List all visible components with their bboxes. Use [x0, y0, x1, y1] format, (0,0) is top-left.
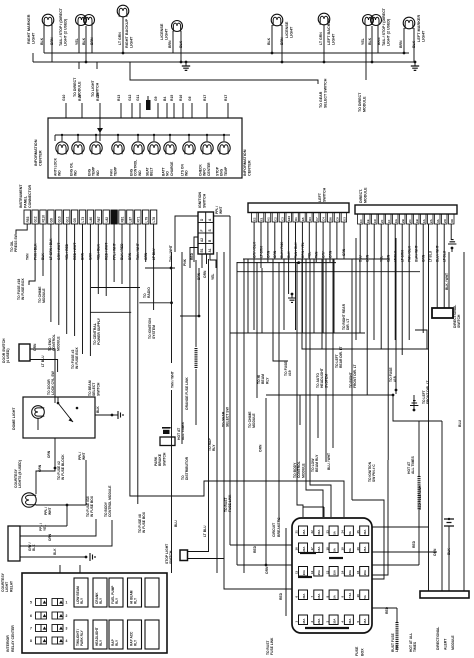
svg-text:R87: R87 [97, 216, 101, 222]
wire to chime module right [256, 262, 258, 398]
svg-text:SELECT SW: SELECT SW [226, 406, 230, 427]
wire YEL ignition switch [210, 254, 216, 268]
relay FUEL PUMP RLY [109, 578, 123, 607]
svg-text:RIGHT MARKER: RIGHT MARKER [27, 14, 31, 44]
svg-text:15: 15 [356, 570, 360, 574]
pin R19 information center [81, 103, 83, 118]
fuse 25 30A [360, 526, 369, 536]
svg-text:20A: 20A [317, 618, 321, 624]
terminal C2 left switch [272, 213, 277, 223]
direct module connector header [355, 205, 457, 214]
terminal E2 left switch [252, 213, 257, 223]
terminal L79 instrument panel connector [143, 210, 149, 224]
junction and ground right mid [393, 395, 442, 421]
wire RED ignition switch [194, 237, 198, 262]
wire to fuse 18 right [395, 238, 397, 355]
wire stop light to fuse box [188, 559, 293, 590]
fuse 21 15A [299, 526, 308, 536]
wire ORN door switch [30, 349, 55, 397]
wire tail bus upper [44, 52, 409, 54]
svg-text:22: 22 [310, 530, 314, 534]
svg-text:G12: G12 [34, 216, 38, 222]
courtesy lamp [22, 493, 36, 507]
svg-text:GRN: GRN [342, 248, 346, 256]
svg-text:15A: 15A [302, 618, 306, 624]
indicator lamp ENG CONTROL IND [137, 135, 139, 141]
svg-text:TAIL / STOP / (DIRECT: TAIL / STOP / (DIRECT [382, 7, 386, 46]
svg-text:ORANGE FUSE LINK: ORANGE FUSE LINK [185, 377, 189, 410]
svg-text:G9: G9 [154, 96, 158, 101]
svg-text:30A: 30A [363, 529, 367, 535]
information center box [48, 118, 242, 178]
svg-text:IND: IND [74, 170, 78, 176]
fuse 1 15A [299, 615, 308, 625]
svg-text:ORN: ORN [259, 444, 263, 452]
pin B4 information center [166, 103, 168, 118]
svg-text:BRN: BRN [377, 37, 381, 45]
svg-text:PRESS SW: PRESS SW [14, 233, 18, 252]
svg-text:CONNECTOR: CONNECTOR [28, 185, 32, 208]
svg-text:SWITCH: SWITCH [322, 187, 326, 202]
lamp left marker light [403, 17, 415, 29]
svg-text:BLU: BLU [174, 520, 178, 527]
svg-text:IN FUSE BLOCK: IN FUSE BLOCK [61, 454, 65, 480]
svg-text:BLK: BLK [368, 37, 372, 45]
svg-text:DIRECT.: DIRECT. [359, 189, 363, 203]
svg-text:MODULE: MODULE [77, 81, 81, 97]
svg-text:7.5A: 7.5A [348, 592, 352, 599]
wire to beam select switch [82, 224, 84, 354]
svg-text:E2: E2 [253, 217, 257, 221]
svg-text:21: 21 [295, 530, 299, 534]
fuse 23 5A [329, 526, 338, 536]
terminal D6 left switch [327, 213, 332, 223]
relay HI BEAM RLY [128, 578, 142, 607]
svg-text:20A: 20A [363, 569, 367, 575]
wire to hi beam rly [273, 259, 288, 361]
svg-text:10A: 10A [302, 569, 306, 575]
svg-text:10A: 10A [348, 569, 352, 575]
svg-text:CENTER: CENTER [39, 150, 43, 166]
svg-text:TAN / WHT: TAN / WHT [169, 245, 173, 262]
dome light lamp [32, 406, 45, 419]
stop light switch box [180, 550, 188, 561]
svg-text:L73: L73 [81, 217, 85, 223]
wire vertical pair right of fuse box [352, 500, 384, 579]
lamp right marker light [42, 14, 54, 26]
svg-text:IND: IND [96, 170, 100, 176]
svg-text:REAR DIR. LT: REAR DIR. LT [339, 346, 343, 368]
fuse 10 5A [360, 590, 369, 600]
svg-text:PANEL: PANEL [23, 195, 27, 208]
svg-text:S: S [208, 229, 212, 231]
wire tan/wht vertical [171, 252, 173, 363]
svg-text:IN FUSE BOX: IN FUSE BOX [75, 347, 79, 369]
directional switch box [432, 308, 453, 318]
svg-text:IGNITION: IGNITION [198, 192, 202, 208]
svg-text:L79: L79 [144, 217, 148, 223]
terminal G12 instrument panel connector [32, 210, 38, 224]
svg-text:(4 USED): (4 USED) [6, 348, 10, 363]
indicator lamp ENG TEMP IND [95, 135, 97, 141]
svg-text:IND: IND [58, 170, 62, 176]
svg-text:MODULE: MODULE [301, 463, 305, 478]
svg-text:16: 16 [295, 547, 299, 551]
svg-text:LICENSE: LICENSE [285, 21, 289, 38]
wire right rear corner bend [415, 330, 427, 349]
svg-text:10A: 10A [333, 618, 337, 624]
terminal C9 left switch [334, 213, 339, 223]
pin G10 information center [65, 103, 67, 118]
svg-text:C2: C2 [273, 217, 277, 221]
wire horizontal link y316 [180, 315, 199, 317]
wire horizontal link y268 [145, 267, 175, 269]
red fuse link right [418, 421, 420, 445]
svg-text:IN FUSE BOX: IN FUSE BOX [21, 278, 25, 300]
wire PPL/WHT ignition switch [214, 215, 231, 217]
svg-text:TO LIGHT: TO LIGHT [91, 79, 95, 97]
svg-text:R16: R16 [179, 95, 183, 101]
fuse 11 10A [299, 567, 308, 577]
terminal L82 instrument panel connector [103, 210, 109, 224]
svg-text:RLY: RLY [134, 639, 138, 646]
svg-text:F: F [200, 230, 204, 232]
svg-text:BLK: BLK [53, 548, 57, 555]
svg-text:RLY: RLY [212, 444, 216, 451]
wire to right front dir lt [355, 238, 357, 340]
connector blob node [146, 100, 151, 110]
svg-text:C7: C7 [315, 217, 319, 221]
svg-text:ORN: ORN [203, 270, 207, 278]
wire ORN dome to courtesy [54, 438, 56, 468]
wire to auto headlight system [302, 259, 428, 349]
terminal L87 instrument panel connector [127, 210, 133, 224]
svg-text:A1: A1 [208, 248, 212, 252]
svg-text:2: 2 [66, 614, 68, 618]
fuse 2 20A [314, 615, 323, 625]
svg-text:SWITCH: SWITCH [169, 550, 173, 564]
terminal 1B direct module [414, 214, 420, 224]
fuse 19 5A [344, 543, 353, 553]
wire to eng control module [50, 224, 52, 322]
svg-text:1F: 1F [387, 219, 391, 223]
dome light box [23, 397, 95, 438]
svg-text:RED: RED [190, 252, 194, 260]
pin R16 information center [182, 103, 184, 118]
svg-text:RLY: RLY [134, 597, 138, 604]
svg-text:C9: C9 [336, 217, 340, 221]
terminal E1 left switch [258, 213, 263, 223]
wire ORN ignition switch [206, 254, 208, 264]
wire BLK left marker [413, 28, 415, 62]
terminal 1A direct module [421, 214, 427, 224]
terminal 2C direct module [407, 214, 413, 224]
svg-text:BRN: BRN [399, 40, 403, 48]
vertical feed to relay center x244 [243, 259, 245, 573]
relay spare top [145, 578, 159, 607]
fuse box outline [292, 518, 372, 633]
svg-text:4: 4 [66, 639, 68, 643]
svg-text:RELAY CENTER: RELAY CENTER [11, 625, 15, 652]
terminal 1C direct module [358, 214, 364, 224]
svg-text:BRN: BRN [90, 37, 94, 45]
relay LOW BEAM RLY [74, 578, 88, 607]
svg-text:TAN: TAN [25, 253, 29, 260]
svg-text:15A: 15A [333, 569, 337, 575]
bus y259 left switch to direct module [243, 258, 390, 260]
wire YEL tail/stop left [365, 25, 367, 80]
svg-text:D1: D1 [294, 217, 298, 221]
wire BLK license [180, 31, 182, 62]
svg-text:G10: G10 [57, 216, 61, 222]
ground dome light [111, 414, 114, 417]
svg-text:LT BLU: LT BLU [41, 355, 45, 367]
wire PPL/WHT courtesy [36, 504, 86, 506]
fuse bus bar row16 [300, 552, 316, 554]
svg-text:14: 14 [341, 570, 345, 574]
svg-text:CIRCUIT: CIRCUIT [272, 522, 276, 537]
svg-text:15A: 15A [317, 546, 321, 552]
wire BLK tail/stop right [85, 26, 87, 62]
svg-text:G5: G5 [73, 218, 77, 222]
wire courtesy to relay PPL/YEL [66, 505, 68, 526]
svg-text:WHT: WHT [219, 206, 223, 214]
svg-text:BLK: BLK [267, 37, 271, 45]
svg-text:15A: 15A [317, 593, 321, 599]
svg-text:G10: G10 [62, 94, 66, 101]
wire TAN/WHT ignition switch [175, 216, 198, 252]
terminal 3A direct module [435, 214, 441, 224]
relay HEADLIGHT RLY [93, 620, 107, 649]
svg-text:R71: R71 [136, 216, 140, 222]
svg-text:YEL: YEL [75, 37, 79, 45]
svg-text:BEAM RLY: BEAM RLY [315, 454, 319, 472]
fuse bus bar row16 right [329, 557, 343, 559]
svg-text:POWER SUPPLY: POWER SUPPLY [97, 317, 101, 345]
svg-text:24: 24 [341, 530, 345, 534]
svg-text:RED: RED [279, 592, 283, 600]
svg-text:L87: L87 [129, 217, 133, 223]
svg-text:BLK: BLK [179, 40, 183, 48]
svg-text:WHT: WHT [48, 507, 52, 515]
wire RED right lower [372, 607, 397, 609]
terminal R53 instrument panel connector [24, 210, 30, 224]
wire direct module drops [359, 224, 361, 259]
svg-text:2B: 2B [401, 219, 405, 223]
ground direct module right [451, 247, 454, 250]
internal rail information center [55, 134, 230, 136]
svg-text:BLU: BLU [458, 419, 462, 427]
svg-text:YEL: YEL [43, 525, 47, 531]
wire BRN license [172, 31, 174, 53]
svg-text:30A: 30A [348, 618, 352, 624]
pin G12 information center [131, 103, 133, 118]
fuse 3 10A [329, 615, 338, 625]
svg-text:BLK: BLK [96, 406, 100, 413]
wire x224 upper to stop light net [223, 481, 225, 559]
fuse 13 15A [329, 567, 338, 577]
svg-text:8: 8 [30, 639, 32, 643]
wire to low beam rly [317, 395, 319, 438]
fuse 14 10A [344, 567, 353, 577]
wire BRN ignition switch [201, 254, 203, 268]
svg-text:RELAY: RELAY [9, 580, 13, 592]
terminal 2A direct module [428, 214, 434, 224]
indicator lamp LTS ON IND [188, 135, 190, 141]
svg-text:MODULE: MODULE [362, 96, 366, 112]
svg-text:YEL: YEL [361, 37, 365, 45]
svg-text:LIGHT: LIGHT [31, 32, 35, 44]
long verticals center-left [229, 216, 231, 545]
terminal R81 instrument panel connector [119, 210, 125, 224]
wire lt blu drop [153, 224, 155, 310]
svg-text:R17: R17 [224, 95, 228, 101]
svg-text:RED FUSE LINK: RED FUSE LINK [418, 485, 422, 510]
svg-text:#19: #19 [288, 370, 292, 376]
svg-text:25: 25 [356, 530, 360, 534]
ground right-rear lights [185, 62, 187, 66]
svg-text:B4: B4 [163, 97, 167, 101]
indicator lamp SEAT BELT [153, 135, 155, 141]
svg-text:ORN: ORN [47, 450, 51, 458]
orange fuse link [195, 260, 197, 347]
svg-text:BLK: BLK [447, 548, 451, 555]
svg-text:ORN: ORN [265, 566, 269, 574]
svg-text:RED: RED [253, 545, 257, 553]
svg-text:BLK: BLK [32, 544, 36, 551]
pin R17 information center [227, 103, 229, 118]
pin G6 information center [191, 103, 193, 118]
svg-text:R81: R81 [121, 216, 125, 222]
fuse 16 20A [299, 543, 308, 553]
wire backup feed to gear select switch [130, 62, 318, 84]
lamp tail/stop left (2 used) [363, 15, 382, 26]
wire left end drop [32, 53, 34, 62]
svg-text:INTERIOR: INTERIOR [6, 635, 10, 652]
wire tail bus lower [33, 61, 415, 63]
svg-text:BOX: BOX [361, 648, 365, 656]
fuse 20 25A [360, 543, 369, 553]
wire to right rear dir lt [295, 328, 297, 330]
indicator lamp STOP ENG TEMP [223, 135, 225, 141]
svg-text:25A: 25A [317, 569, 321, 575]
svg-text:BLK: BLK [82, 37, 86, 45]
terminal L78 instrument panel connector [150, 210, 156, 224]
terminal L73 instrument panel connector [79, 210, 85, 224]
directional alert module bar [420, 591, 469, 598]
wire RED left of fuse box [285, 528, 287, 600]
svg-text:G11: G11 [136, 95, 140, 101]
svg-text:LIGHT (2 USED): LIGHT (2 USED) [63, 18, 67, 46]
terminal R71 instrument panel connector [135, 210, 141, 224]
wire LT GRN left backup [323, 25, 325, 62]
indicator lamp CHECK INFO CENTER [206, 135, 208, 141]
svg-text:R53: R53 [26, 216, 30, 222]
svg-text:BLK: BLK [40, 37, 44, 45]
svg-text:DIR. LT: DIR. LT [346, 319, 350, 330]
svg-text:2F: 2F [380, 219, 384, 223]
diode on pin R110 [97, 128, 103, 133]
svg-text:SW PIN # C: SW PIN # C [372, 464, 376, 482]
svg-text:LIGHTS (8 USED): LIGHTS (8 USED) [18, 460, 22, 488]
svg-text:BLK / WHT: BLK / WHT [445, 273, 449, 290]
svg-text:RLY: RLY [99, 639, 103, 646]
svg-text:LEFT MARKER: LEFT MARKER [417, 15, 421, 42]
svg-text:30A: 30A [317, 529, 321, 535]
wire PNK ignition switch [190, 248, 198, 269]
left switch connector header [248, 203, 349, 213]
svg-text:A1: A1 [267, 217, 271, 221]
relay RAP RLY [109, 620, 123, 649]
svg-text:LIGHT (2 USED): LIGHT (2 USED) [386, 18, 390, 46]
terminal C4 left switch [321, 213, 326, 223]
svg-text:INSTRUMENT: INSTRUMENT [19, 184, 23, 208]
svg-text:ORN: ORN [38, 464, 42, 472]
svg-text:19: 19 [341, 547, 345, 551]
wire fuse box right exits [372, 526, 429, 528]
svg-text:LICENSE: LICENSE [160, 23, 164, 40]
terminal 1G direct module [393, 214, 399, 224]
fuse 5 15A [360, 615, 369, 625]
svg-text:G3: G3 [342, 217, 346, 221]
interior relay center box [22, 573, 167, 653]
svg-text:IN FUSE BOX: IN FUSE BOX [142, 511, 146, 533]
fuse 17 15A [314, 543, 323, 553]
svg-text:ALERT: ALERT [444, 638, 448, 650]
svg-text:TO DIRECT: TO DIRECT [73, 77, 77, 97]
wire to distributor [181, 252, 183, 444]
svg-text:FUSE: FUSE [355, 646, 359, 656]
svg-text:TEMP: TEMP [114, 166, 118, 176]
wire to ignition system [121, 224, 123, 284]
fuse 24 5A [344, 526, 353, 536]
svg-text:7: 7 [30, 627, 32, 631]
wire LT BLU door switch [30, 360, 58, 373]
junction dots on buses [85, 61, 88, 64]
svg-text:RLY: RLY [80, 597, 84, 604]
wires entering fuse box top [297, 262, 303, 517]
svg-text:10: 10 [356, 594, 360, 598]
svg-text:RLY: RLY [115, 639, 119, 646]
courtesy light relay box [8, 526, 20, 561]
wire BRN tail/stop left [377, 25, 379, 53]
wire BRN long to fuse 8 feed [130, 224, 344, 517]
wire GRY/BLK relay to body control module [20, 520, 112, 546]
svg-text:INFORMATION: INFORMATION [34, 139, 38, 166]
wire ORN mid [265, 398, 267, 445]
svg-text:R17: R17 [203, 95, 207, 101]
wire BLK relay to ground [20, 556, 86, 558]
bus y395 long [266, 394, 393, 396]
bus y333 [230, 332, 365, 334]
wire grn left switch to field [343, 222, 345, 259]
terminal G3 left switch [341, 213, 346, 223]
svg-text:6: 6 [30, 614, 32, 618]
svg-text:5: 5 [30, 601, 32, 605]
svg-text:G9: G9 [50, 218, 54, 222]
ground mid left-switch [291, 294, 293, 298]
lamp license light right of center [172, 21, 183, 32]
terminal E5 left switch [300, 213, 305, 223]
wire grn drop [145, 224, 147, 262]
ground courtesy relay [85, 556, 88, 559]
svg-text:E5: E5 [301, 217, 305, 221]
extra field verticals right half [247, 259, 249, 333]
wire BRN right marker [51, 25, 53, 62]
indicator lamp BATT NO CHARGE [169, 135, 171, 141]
svg-text:LT BLU: LT BLU [203, 525, 207, 537]
svg-text:RADIO: RADIO [147, 287, 151, 298]
